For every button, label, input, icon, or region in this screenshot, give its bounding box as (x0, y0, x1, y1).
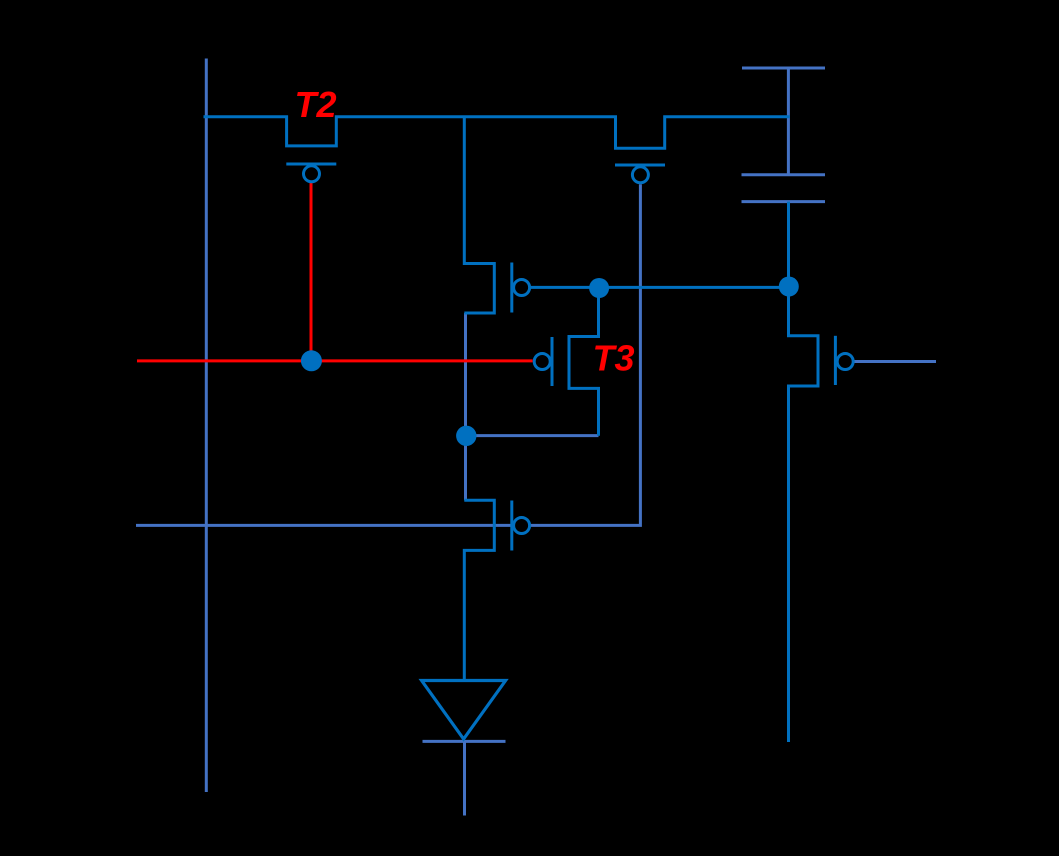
capacitor C1 top plate (742, 173, 826, 176)
wire: gate net from drive transistor bubble to capacitor node (531, 286, 789, 289)
transistor T2 gate bar (286, 163, 336, 166)
bottom transistor gate bar (510, 501, 513, 551)
wire: red data net horizontal (137, 359, 533, 362)
transistor T3 gate bar (551, 337, 554, 386)
svg-text:T3: T3 (593, 338, 635, 379)
transistor T2 gate bubble (304, 166, 320, 182)
wire: storage node vertical segment (464, 313, 467, 500)
capacitor C1 bottom plate (742, 200, 826, 203)
drive transistor gate bar (510, 263, 513, 313)
node: gate net junction dot at T3 (589, 278, 609, 298)
right output transistor channel path (789, 202, 819, 742)
transistor T3 channel path (569, 288, 599, 436)
drive transistor gate bubble (514, 280, 530, 296)
wire: select line (left vertical bus) (205, 59, 208, 793)
wire: right output transistor gate lead (855, 360, 937, 363)
svg-text:T2: T2 (295, 84, 337, 125)
right output transistor gate bar (834, 336, 837, 385)
wire: diode cathode lead (463, 741, 466, 815)
node: capacitor node junction dot (779, 277, 799, 297)
wire: VDD bar to capacitor top plate (787, 68, 790, 175)
wire: red gate lead of T2 (310, 182, 313, 361)
bottom transistor channel path down to diode (464, 500, 494, 680)
transistor T1 gate bar (615, 164, 665, 167)
wire: scan line to bottom transistor gate net (136, 184, 640, 525)
wire: top rail with T2 and T1 channel troughs (204, 117, 790, 148)
diode D1 cathode bar (423, 740, 506, 743)
power rail VDD bar (742, 67, 825, 70)
drive transistor upper channel path (464, 117, 494, 313)
right output transistor gate bubble (837, 354, 853, 370)
node: storage node junction dot (456, 426, 476, 446)
wire: storage node horizontal segment to T3 (466, 434, 599, 437)
diode D1 anode triangle (422, 681, 506, 740)
transistor T1 gate bubble (632, 167, 648, 183)
node: red data net junction dot (301, 350, 322, 371)
transistor T3 gate bubble (534, 354, 550, 370)
bottom transistor gate bubble (514, 518, 530, 534)
